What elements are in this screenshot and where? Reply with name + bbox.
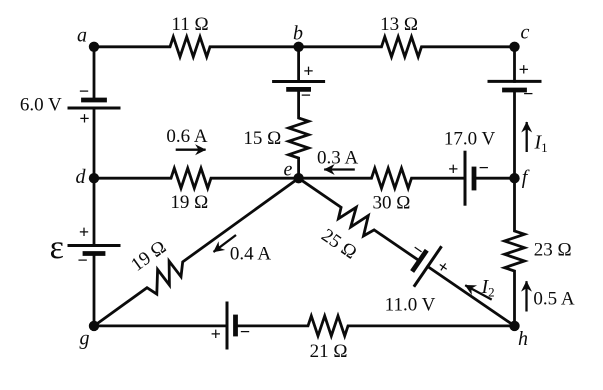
battery 11.0V long plate (plus, lower-right)	[415, 248, 441, 286]
wire battery 6.0V to d	[93, 108, 96, 178]
svg-text:13 Ω: 13 Ω	[380, 14, 418, 35]
wire f, resistor R 23ohm, wire to h	[505, 178, 525, 326]
wire battery-c to f	[513, 90, 516, 178]
svg-text:19 Ω: 19 Ω	[170, 192, 208, 213]
svg-text:ε: ε	[50, 229, 64, 266]
wire a-b with resistor R 11ohm	[94, 37, 299, 57]
svg-text:17.0 V: 17.0 V	[444, 129, 496, 150]
wire g to bottom battery	[94, 324, 227, 327]
svg-text:25 Ω: 25 Ω	[317, 225, 360, 264]
battery below c short plate (minus, bottom)	[505, 88, 525, 93]
svg-text:6.0 V: 6.0 V	[20, 95, 62, 116]
svg-text:b: b	[293, 23, 303, 45]
wire battery 11.0V to h	[428, 267, 515, 326]
svg-text:+: +	[519, 59, 529, 79]
node b	[293, 42, 303, 52]
battery 17.0V short plate (minus, right)	[472, 169, 477, 188]
node e	[293, 173, 303, 183]
wire battery epsilon to g	[93, 254, 96, 326]
current arrow I2	[465, 285, 492, 299]
svg-text:−: −	[79, 81, 89, 101]
svg-text:11.0 V: 11.0 V	[385, 295, 436, 316]
bottom battery short plate (minus, right)	[233, 317, 238, 334]
battery 6.0V long plate (plus, bottom)	[69, 107, 119, 110]
node h	[509, 321, 519, 331]
node c	[509, 42, 519, 52]
wire d-e with resistor R 19ohm	[94, 168, 299, 188]
battery below b short plate (minus, bottom)	[289, 87, 309, 92]
battery epsilon short plate (minus, bottom)	[85, 251, 103, 256]
svg-text:+: +	[211, 324, 221, 344]
current arrow 0.4 A	[214, 235, 237, 252]
svg-text:−: −	[240, 321, 250, 341]
battery 11.0V short plate (minus, upper-left)	[414, 252, 426, 269]
battery below b long plate (plus, top)	[274, 80, 324, 83]
svg-text:+: +	[303, 61, 313, 81]
current arrow I1	[526, 122, 528, 152]
wire c to battery below c	[513, 47, 516, 82]
diagonal wire e-g with resistor R 19ohm (diagonal)	[94, 178, 299, 326]
svg-text:11 Ω: 11 Ω	[171, 14, 208, 35]
svg-text:d: d	[76, 166, 87, 188]
svg-text:I1: I1	[534, 132, 548, 156]
battery below c long plate (plus, top)	[489, 80, 540, 83]
wire b-c with resistor R 13ohm	[299, 37, 515, 57]
svg-text:−: −	[523, 83, 533, 103]
wire, resistor R 21ohm, wire to h	[236, 316, 515, 336]
svg-text:−: −	[479, 157, 489, 177]
svg-text:0.4 A: 0.4 A	[230, 244, 271, 265]
svg-text:e: e	[284, 159, 293, 181]
svg-text:−: −	[77, 250, 87, 270]
svg-text:c: c	[521, 22, 530, 44]
node a	[89, 42, 99, 52]
wire b to battery below b	[297, 47, 300, 82]
svg-text:+: +	[79, 222, 89, 242]
svg-text:23 Ω: 23 Ω	[534, 240, 572, 261]
node f	[509, 173, 519, 183]
svg-text:f: f	[522, 167, 530, 189]
node g	[89, 321, 99, 331]
svg-text:15 Ω: 15 Ω	[243, 128, 281, 149]
svg-text:a: a	[77, 25, 87, 47]
svg-text:+: +	[433, 256, 453, 278]
wire, resistor R 15ohm, wire to e	[289, 89, 309, 178]
wire d to battery epsilon	[93, 178, 96, 245]
svg-text:+: +	[448, 159, 458, 179]
current arrow 0.5 A	[525, 281, 527, 311]
current arrow 0.3 A	[324, 168, 355, 170]
battery 6.0V short plate (minus, top)	[84, 98, 105, 103]
svg-text:0.3 A: 0.3 A	[317, 148, 358, 169]
battery epsilon long plate (plus, top)	[69, 244, 119, 247]
wire battery 17.0V to f	[474, 177, 515, 180]
diagonal wire e, resistor R 25ohm, wire to battery 11.0V	[299, 178, 420, 261]
node d	[89, 173, 99, 183]
svg-text:30 Ω: 30 Ω	[372, 193, 410, 214]
svg-text:0.5 A: 0.5 A	[533, 289, 574, 310]
svg-text:g: g	[80, 328, 90, 350]
svg-text:0.6 A: 0.6 A	[166, 126, 207, 147]
bottom battery long plate (plus, left)	[226, 303, 229, 348]
battery 17.0V long plate (plus, left)	[464, 152, 467, 204]
svg-text:21 Ω: 21 Ω	[310, 341, 348, 362]
current arrow 0.6 A	[176, 149, 206, 151]
wire e, resistor R 30ohm, wire to battery 17.0V	[299, 168, 465, 188]
svg-text:+: +	[79, 108, 89, 128]
svg-text:h: h	[518, 328, 528, 350]
svg-text:−: −	[301, 85, 311, 105]
wire a to battery 6.0V	[93, 47, 96, 99]
svg-text:19 Ω: 19 Ω	[127, 237, 170, 276]
